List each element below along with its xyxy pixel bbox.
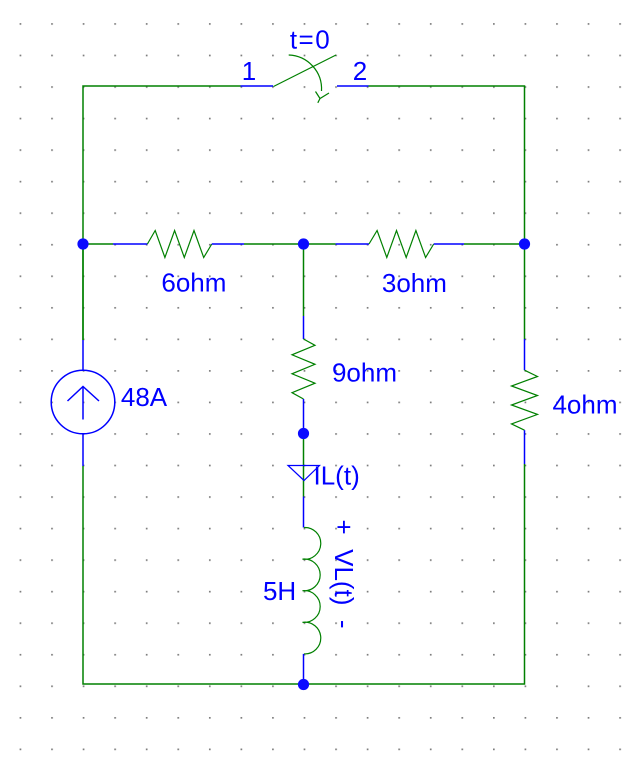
wire: left vertical mid (node to current source) [82,244,84,340]
junction node at right rail / mid rail [519,238,530,249]
svg-text:6ohm: 6ohm [161,268,226,298]
svg-text:5H: 5H [263,576,296,606]
junction node at bottom rail [298,679,309,690]
svg-text:2: 2 [353,56,367,86]
switch S1 t=0 (terminals, blade, motion arrow) [241,55,369,103]
junction node at middle / mid rail [298,238,309,249]
svg-text:+ VL(t) -: + VL(t) - [329,520,359,629]
junction node at left rail / mid rail [77,238,88,249]
wire: top-right rail (top horizontal from switch + right vertical upper) [369,86,525,339]
wire: bottom-right rail [304,464,525,684]
resistor 6ohm [113,231,244,258]
wire: bottom-left rail [83,466,304,684]
wire: middle branch between node and inductor [303,433,305,497]
wire: mid rail center-left segment [244,243,304,245]
wire: top-left rail (left vertical upper + top horizontal to switch) [83,86,241,340]
wire: mid rail left segment [83,243,113,245]
svg-text:48A: 48A [121,382,168,412]
inductor 5H [303,497,321,685]
svg-text:1: 1 [242,56,256,86]
svg-text:t=0: t=0 [290,25,331,55]
current direction arrow IL(t) (triangle) [288,466,320,481]
junction node between 9ohm and inductor branch [298,428,309,439]
wire: mid rail right segment [464,243,525,245]
resistor 9ohm [292,316,315,433]
resistor 3ohm [336,231,464,258]
svg-text:3ohm: 3ohm [382,268,447,298]
svg-text:4ohm: 4ohm [552,390,617,420]
wire: mid rail center-right segment [304,243,336,245]
svg-text:IL(t): IL(t) [314,461,360,491]
svg-text:9ohm: 9ohm [332,358,397,388]
current source 48A [51,340,115,466]
resistor 4ohm [512,339,538,464]
wire: middle branch upper [303,244,305,316]
